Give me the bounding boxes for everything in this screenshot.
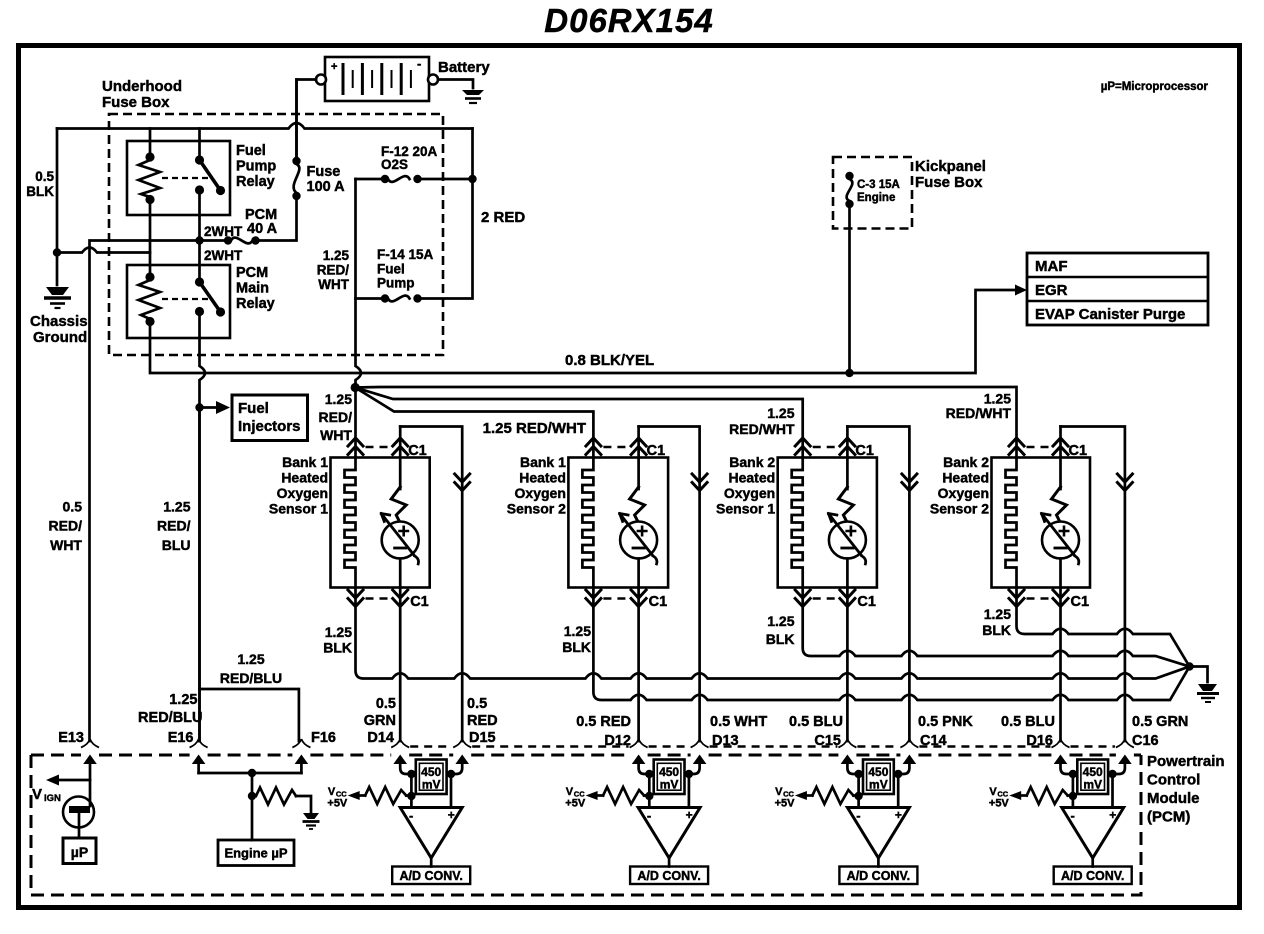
wire 0.5 BLK drop	[56, 129, 59, 253]
wire battery column to Fuse 100 A	[295, 80, 298, 159]
wire 1.25 BLK bus (sensor 2 heater ground)	[593, 588, 1189, 701]
relay K1 coil	[145, 152, 154, 161]
svg-text:-: -	[417, 56, 421, 71]
node Vcc bias tap 3	[854, 792, 862, 800]
node Vcc bias tap 2	[645, 792, 653, 800]
svg-text:V: V	[328, 786, 336, 798]
svg-text:2WHT: 2WHT	[204, 248, 243, 263]
node pull-down tap	[248, 792, 256, 800]
svg-text:µP: µP	[71, 844, 88, 860]
sensor element (sensor 2)	[637, 427, 640, 490]
svg-text:0.5 PNK: 0.5 PNK	[918, 714, 973, 730]
svg-text:+5V: +5V	[327, 798, 348, 810]
svg-text:+: +	[448, 808, 455, 822]
svg-text:RED/BLU: RED/BLU	[220, 670, 282, 686]
ground (engine uP pull-down)	[303, 813, 319, 819]
svg-text:Fuel: Fuel	[236, 143, 266, 159]
svg-text:V: V	[566, 786, 574, 798]
transistor Q1	[63, 797, 94, 828]
svg-text:0.8 BLK/YEL: 0.8 BLK/YEL	[565, 352, 654, 369]
svg-text:40 A: 40 A	[247, 221, 278, 237]
wire switch feed from 2WHT node	[198, 241, 201, 282]
svg-text:2 RED: 2 RED	[481, 209, 525, 226]
svg-text:Oxygen: Oxygen	[515, 485, 566, 501]
svg-text:+: +	[895, 808, 902, 822]
connector C1 top (sensor 3)	[795, 438, 810, 446]
svg-text:1.25: 1.25	[325, 624, 352, 640]
microprocessor box uP	[63, 838, 96, 864]
node ground junction	[53, 248, 61, 256]
ground (sensor returns)	[1198, 684, 1217, 691]
fuse F-12 20A O2S	[421, 178, 473, 181]
wire sensor 4 signal reference bracket	[1061, 427, 1125, 742]
wire 2WHT node	[200, 190, 226, 241]
svg-text:D15: D15	[469, 730, 496, 746]
svg-text:C1: C1	[410, 594, 429, 610]
resistor R (Vcc bias) 4	[1027, 787, 1068, 804]
svg-text:1.25: 1.25	[984, 606, 1011, 622]
wire inputs down 4	[1073, 774, 1113, 808]
node left input 3	[854, 770, 862, 778]
wire branch to F16	[200, 689, 299, 741]
svg-text:D14: D14	[367, 730, 394, 746]
svg-text:Ground: Ground	[33, 329, 87, 346]
svg-text:Pump: Pump	[236, 159, 276, 175]
svg-text:RED/BLU: RED/BLU	[138, 710, 202, 726]
wire inputs down 1	[411, 774, 451, 808]
wire op-amp output 4	[1091, 858, 1094, 867]
svg-text:EVAP Canister Purge: EVAP Canister Purge	[1035, 306, 1185, 323]
node left input 2	[645, 770, 653, 778]
arrow into EGR	[1015, 285, 1027, 296]
svg-text:+: +	[686, 808, 693, 822]
svg-text:1.25: 1.25	[767, 405, 794, 421]
relay K2 coil-switch dashed link	[162, 298, 212, 300]
svg-text:Heated: Heated	[281, 470, 328, 486]
svg-text:0.5 WHT: 0.5 WHT	[710, 714, 767, 730]
node right input 3	[894, 770, 902, 778]
wire ground link to relay coils (hops over E13 wire)	[57, 248, 150, 253]
svg-text:1.25: 1.25	[564, 623, 591, 639]
connector chevrons on reference wire (sensor 2)	[692, 474, 707, 482]
connector chevrons on reference wire (sensor 3)	[902, 474, 917, 482]
connector C1 top (sensor 4)	[1009, 438, 1024, 446]
oxygen sensor 1 body box	[331, 458, 430, 588]
svg-text:mV: mV	[422, 778, 441, 792]
node 1.25 RED/WHT distribution junction	[351, 383, 360, 392]
svg-text:F-14 15A: F-14 15A	[377, 247, 434, 262]
vehicle connector dashed line (sensor pins)	[410, 745, 452, 747]
A/D CONV box 4	[1054, 867, 1132, 885]
connector C1 bottom (sensor 4)	[1009, 590, 1024, 598]
svg-text:BLK: BLK	[766, 631, 795, 647]
sensor element (sensor 1)	[399, 427, 402, 490]
svg-text:E16: E16	[168, 730, 194, 746]
heater element (sensor 4)	[1006, 458, 1017, 588]
arrow Vcc 4	[1009, 791, 1021, 800]
svg-text:Sensor 2: Sensor 2	[507, 501, 566, 517]
relay K2 switch	[195, 277, 204, 286]
arrow V IGN	[57, 779, 90, 782]
relay K1 switch	[195, 155, 204, 164]
svg-text:+5V: +5V	[989, 798, 1010, 810]
wire inputs down 3	[859, 774, 899, 808]
wire supply to sensor 2 heater	[355, 388, 593, 459]
wire sensor 2 signal reference bracket	[639, 427, 700, 742]
450 mV reference box 4	[1077, 760, 1108, 795]
resistor R (Vcc bias) 2	[603, 787, 644, 804]
ground (battery)	[462, 90, 484, 95]
svg-text:1.25: 1.25	[767, 613, 794, 629]
wire fuse 100A to PCM 40A fuse	[259, 196, 297, 241]
svg-text:Fuse: Fuse	[307, 164, 341, 180]
svg-text:-: -	[856, 808, 860, 823]
arrow Vcc 2	[586, 791, 598, 800]
op-amp 4	[1062, 808, 1124, 859]
svg-text:Oxygen: Oxygen	[277, 485, 328, 501]
node fuel injector tap	[195, 403, 203, 411]
svg-text:Chassis: Chassis	[30, 313, 88, 330]
svg-text:Engine µP: Engine µP	[224, 846, 287, 861]
svg-text:E13: E13	[58, 730, 84, 746]
node kickpanel junction	[845, 369, 853, 377]
svg-text:EGR: EGR	[1035, 282, 1068, 299]
A/D CONV box 1	[392, 867, 470, 885]
sensor element (sensor 4)	[1059, 427, 1062, 490]
svg-text:A/D CONV.: A/D CONV.	[1061, 869, 1124, 883]
svg-text:+: +	[331, 61, 337, 73]
node Vcc bias tap 4	[1069, 792, 1077, 800]
PCM dashed enclosure	[31, 754, 81, 757]
wire 1.25 BLK bus (sensor 4 heater ground)	[1017, 588, 1190, 667]
fuse C-3 15A Engine	[845, 172, 853, 180]
wire 1.25 BLK bus (sensor 1 heater ground)	[356, 588, 1190, 679]
wire op-amp output 3	[877, 858, 880, 867]
wire op-amp output 2	[668, 858, 671, 867]
wire kickpanel fuse to 0.8 BLK/YEL	[848, 204, 851, 373]
svg-text:mV: mV	[869, 778, 888, 792]
fuse F100 Fuse 100 A	[292, 157, 300, 165]
connector C1 bottom (sensor 1)	[348, 590, 363, 598]
svg-text:1.25 RED/WHT: 1.25 RED/WHT	[483, 420, 586, 437]
connector C1 top (sensor 1)	[348, 438, 363, 446]
A/D channel 1: pin jogs	[400, 763, 411, 774]
svg-text:+: +	[1109, 808, 1116, 822]
svg-text:Sensor 1: Sensor 1	[716, 501, 775, 517]
wire sensor 1 signal reference bracket	[400, 427, 462, 742]
svg-text:D06RX154: D06RX154	[544, 2, 713, 39]
pin arrows into PCM	[83, 755, 97, 765]
svg-text:RED/: RED/	[157, 518, 191, 534]
svg-text:BLK: BLK	[562, 639, 591, 655]
svg-text:WHT: WHT	[318, 277, 349, 292]
connector chevrons on reference wire (sensor 1)	[455, 474, 470, 482]
node F-12 tap	[468, 175, 476, 183]
Underhood Fuse Box dashed enclosure	[109, 114, 443, 355]
svg-text:1.25: 1.25	[237, 651, 264, 667]
svg-text:µP=Microprocessor: µP=Microprocessor	[1101, 81, 1209, 93]
svg-text:Module: Module	[1147, 790, 1200, 807]
svg-text:Pump: Pump	[377, 276, 415, 291]
battery B1	[325, 57, 429, 101]
svg-text:0.5: 0.5	[467, 696, 487, 712]
svg-text:PCM: PCM	[236, 265, 268, 281]
wire E16/F16 bracket	[199, 772, 302, 775]
svg-text:RED/WHT: RED/WHT	[729, 421, 795, 437]
Fuel Injectors box	[232, 395, 308, 441]
node left input 1	[407, 770, 415, 778]
wire sensor 1 signal to PCM	[399, 588, 402, 742]
svg-text:C1: C1	[649, 594, 668, 610]
svg-text:-: -	[409, 808, 413, 823]
svg-text:Battery: Battery	[438, 59, 490, 76]
svg-text:C1: C1	[857, 594, 876, 610]
wire battery negative to ground	[438, 80, 473, 89]
op-amp 2	[638, 808, 700, 859]
wire 0.8 BLK/YEL run	[150, 290, 1018, 373]
svg-text:0.5: 0.5	[35, 169, 54, 184]
svg-text:-: -	[647, 808, 651, 823]
wire op-amp output 1	[430, 858, 433, 867]
svg-text:BLU: BLU	[162, 537, 191, 553]
svg-text:0.5 BLU: 0.5 BLU	[789, 714, 843, 730]
svg-text:O2S: O2S	[381, 157, 408, 172]
svg-text:-: -	[1071, 808, 1075, 823]
svg-text:GRN: GRN	[364, 713, 396, 729]
svg-text:Heated: Heated	[942, 470, 989, 486]
svg-text:Bank 2: Bank 2	[943, 454, 989, 470]
wire supply to sensor 3 heater	[355, 388, 803, 459]
svg-text:Fuse Box: Fuse Box	[915, 174, 983, 191]
svg-text:BLK: BLK	[982, 622, 1011, 638]
svg-text:Fuse Box: Fuse Box	[102, 94, 170, 111]
svg-text:BLK: BLK	[323, 640, 352, 656]
svg-text:0.5 RED: 0.5 RED	[576, 714, 631, 730]
relay K1 Fuel Pump Relay box	[127, 141, 230, 215]
svg-text:Fuel: Fuel	[238, 400, 269, 417]
wire switch feed	[198, 129, 201, 159]
svg-text:Underhood: Underhood	[102, 78, 182, 95]
wire inputs down 2	[649, 774, 689, 808]
resistor R (Vcc bias) 3	[812, 787, 853, 804]
node left input 4	[1069, 770, 1077, 778]
svg-text:RED/WHT: RED/WHT	[946, 405, 1012, 421]
heater element (sensor 1)	[345, 458, 356, 588]
heater element (sensor 2)	[582, 458, 593, 588]
svg-text:Sensor 1: Sensor 1	[269, 501, 328, 517]
svg-text:1.25: 1.25	[325, 391, 352, 407]
svg-text:RED: RED	[467, 713, 498, 729]
node bracket center	[248, 769, 256, 777]
450 mV reference box 2	[654, 760, 685, 795]
arrow to Fuel Injectors	[200, 406, 218, 409]
A/D CONV box 2	[630, 867, 708, 885]
wire sensor 3 signal to PCM	[846, 588, 849, 742]
svg-text:Relay: Relay	[236, 296, 275, 312]
svg-text:V: V	[989, 786, 997, 798]
wire sensor 4 signal to PCM	[1059, 588, 1062, 742]
op-amp 1	[400, 808, 462, 859]
svg-text:Fuel: Fuel	[377, 262, 405, 277]
svg-text:Sensor 2: Sensor 2	[930, 501, 989, 517]
resistor R1 (pull-down)	[256, 788, 296, 805]
svg-text:Relay: Relay	[236, 174, 275, 190]
node right input 4	[1108, 770, 1116, 778]
450 mV reference box 3	[863, 760, 894, 795]
svg-text:0.5: 0.5	[376, 696, 396, 712]
connector C1 bottom (sensor 2)	[586, 590, 601, 598]
svg-text:IGN: IGN	[44, 793, 61, 804]
node right input 2	[685, 770, 693, 778]
wire 1.25 BLK bus (sensor 3 heater ground)	[803, 588, 1190, 667]
450 mV reference box 1	[416, 760, 447, 795]
fuse F-14 15A Fuel Pump	[413, 294, 421, 302]
svg-text:mV: mV	[1083, 778, 1102, 792]
connector chevrons on reference wire (sensor 4)	[1117, 474, 1132, 482]
wire sensor 3 signal reference bracket	[847, 427, 909, 742]
chassis ground symbol	[46, 287, 69, 295]
svg-text:Heated: Heated	[729, 470, 776, 486]
svg-text:1.25: 1.25	[323, 248, 350, 263]
connector entry flares at pins	[81, 739, 90, 748]
svg-text:A/D CONV.: A/D CONV.	[399, 869, 462, 883]
MAF / EGR / EVAP block	[1027, 253, 1208, 325]
Engine uP box	[218, 840, 294, 866]
svg-text:C1: C1	[1071, 594, 1090, 610]
svg-text:+5V: +5V	[565, 798, 586, 810]
svg-text:0.5: 0.5	[63, 499, 83, 515]
op-amp 3	[847, 808, 909, 859]
Kickpanel Fuse Box dashed enclosure	[833, 157, 912, 229]
A/D channel 2: pin jogs	[639, 763, 650, 774]
svg-text:(PCM): (PCM)	[1147, 809, 1190, 826]
svg-text:1.25: 1.25	[163, 499, 190, 515]
sensor element (sensor 3)	[846, 427, 849, 490]
svg-text:Oxygen: Oxygen	[724, 485, 775, 501]
svg-text:WHT: WHT	[50, 537, 82, 553]
svg-text:MAF: MAF	[1035, 258, 1068, 275]
wire E16 stem	[197, 763, 200, 773]
svg-text:Kickpanel: Kickpanel	[915, 158, 986, 175]
wire supply to sensor 4 heater	[355, 387, 1016, 458]
oxygen sensor 3 body box	[778, 458, 877, 588]
svg-text:Bank 2: Bank 2	[729, 454, 775, 470]
wire 2WHT node to E13 drop	[90, 241, 200, 742]
wire F16 stem	[300, 763, 303, 773]
svg-text:mV: mV	[660, 778, 679, 792]
svg-text:100 A: 100 A	[307, 179, 346, 195]
relay K2 PCM Main Relay box	[127, 265, 230, 338]
fuse F40 PCM 40 A	[224, 236, 232, 244]
svg-text:A/D CONV.: A/D CONV.	[637, 869, 700, 883]
svg-text:WHT: WHT	[320, 427, 352, 443]
arrow Vcc 3	[795, 791, 807, 800]
wire to chassis ground	[56, 253, 59, 286]
oxygen sensor 2 body box	[568, 458, 668, 588]
svg-text:2WHT: 2WHT	[204, 224, 243, 239]
svg-text:V: V	[32, 786, 42, 803]
svg-text:0.5 GRN: 0.5 GRN	[1132, 714, 1188, 730]
wire supply to sensor 1 heater	[354, 388, 357, 459]
wire relay coil chain	[149, 200, 152, 278]
svg-text:0.5 BLU: 0.5 BLU	[1001, 714, 1055, 730]
node bus convergence	[1185, 662, 1193, 670]
connector C1 bottom (sensor 3)	[795, 590, 810, 598]
node right input 1	[447, 770, 455, 778]
svg-text:RED/: RED/	[319, 409, 353, 425]
svg-text:BLK: BLK	[26, 184, 54, 199]
wire battery positive to fuse column	[297, 80, 317, 159]
svg-text:Bank 1: Bank 1	[520, 454, 566, 470]
svg-text:Control: Control	[1147, 772, 1200, 789]
svg-text:Oxygen: Oxygen	[938, 485, 989, 501]
wire sensor 2 signal to PCM	[637, 588, 640, 742]
resistor R (Vcc bias) 1	[365, 787, 406, 804]
svg-text:+5V: +5V	[775, 798, 796, 810]
wire to Engine uP	[251, 773, 254, 840]
A/D channel 3: pin jogs	[847, 763, 858, 774]
svg-text:1.25: 1.25	[169, 692, 197, 708]
wire 1.25 RED/BLU to E16	[198, 408, 201, 742]
A/D CONV box 3	[839, 867, 917, 885]
svg-text:Heated: Heated	[519, 470, 566, 486]
relay K2 coil	[145, 272, 154, 281]
node Vcc bias tap 1	[407, 792, 415, 800]
svg-text:C16: C16	[1132, 733, 1159, 749]
wire 2 RED	[421, 129, 473, 299]
oxygen sensor 4 body box	[992, 458, 1091, 588]
heater element (sensor 3)	[792, 458, 803, 588]
wire convergence to ground	[1190, 667, 1208, 683]
svg-text:Injectors: Injectors	[238, 418, 301, 435]
arrow Vcc 1	[348, 791, 360, 800]
wire O2S feed drop (hops 0.8 BLK/YEL)	[356, 179, 362, 384]
svg-text:F16: F16	[311, 730, 336, 746]
svg-text:RED/: RED/	[49, 518, 83, 534]
svg-text:V: V	[775, 786, 783, 798]
A/D channel 4: pin jogs	[1061, 763, 1073, 774]
wire relay K2 output (hops 0.8 BLK/YEL)	[200, 312, 206, 742]
svg-text:RED/: RED/	[317, 263, 350, 278]
svg-text:Main: Main	[236, 281, 269, 297]
connector C1 top (sensor 2)	[586, 438, 601, 446]
svg-text:A/D CONV.: A/D CONV.	[847, 869, 910, 883]
svg-text:Powertrain: Powertrain	[1147, 753, 1225, 770]
relay K1 coil-switch dashed link	[162, 177, 212, 179]
wire battery feed bus (hops over fuse column)	[57, 123, 473, 129]
svg-text:Bank 1: Bank 1	[282, 454, 328, 470]
svg-text:Engine: Engine	[857, 192, 895, 204]
svg-text:C-3 15A: C-3 15A	[857, 179, 900, 191]
wire coil feed	[149, 129, 152, 158]
